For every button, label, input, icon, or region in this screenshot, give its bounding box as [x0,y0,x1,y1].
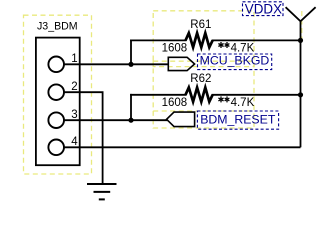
wire pin1 to MCU_BKGD flag [64,63,169,65]
power VDDX stem wire [300,21,302,147]
resistor R62 body [186,88,213,102]
connector pin 3 circle [48,112,64,128]
ground symbol [87,184,117,199]
wire R62 right lead to VDDX stem [212,94,301,96]
svg-text:1: 1 [71,53,77,65]
svg-text:1608: 1608 [162,97,188,109]
svg-text:4.7K: 4.7K [231,97,255,109]
connector pin 1 circle [48,57,64,73]
wire vertical branch pin1 to R61 [130,40,132,65]
node junction dot R62/VDDX stem [298,92,303,97]
svg-text:3: 3 [71,109,77,121]
yellow dashed segment along VDDX stem [301,11,303,40]
svg-text:BDM_RESET: BDM_RESET [200,112,276,126]
wire pin4 to VDDX stem [64,146,301,148]
svg-text:1608: 1608 [162,42,188,54]
svg-text:J3_BDM: J3_BDM [37,21,78,33]
label R61 value **4.7K [218,42,229,48]
wire R61 left lead [130,39,186,41]
off-page connector flag BDM_RESET [167,112,195,127]
connector pin 2 circle [48,84,64,100]
net label MCU_BKGD [198,54,272,70]
node junction dot pin3/R62 branch [128,118,133,123]
svg-text:4.7K: 4.7K [231,42,255,54]
wire R61 right lead to VDDX stem [212,39,301,41]
connector J3 body [36,38,80,166]
node junction dot pin1/R61 branch [128,62,133,67]
connector pin 4 circle [48,140,64,156]
wire R62 left lead [130,94,186,96]
net label VDDX [243,2,284,16]
node junction dot R61/VDDX stem [298,38,303,43]
svg-text:2: 2 [71,81,77,93]
wire vertical branch pin3 to R62 [130,94,132,120]
hierarchical block outline (yellow dashed) around R62 / BDM_RESET [153,61,254,128]
hierarchical block outline (yellow dashed) around connector J3 [24,15,92,174]
resistor R61 body [186,33,213,47]
wire pin2 to ground stem [64,92,103,184]
wire pin3 to BDM_RESET flag [64,119,168,121]
yellow dashed divider above BDM_RESET flag [153,110,254,112]
svg-text:R62: R62 [190,73,211,85]
svg-text:R61: R61 [190,19,211,31]
svg-text:4: 4 [71,136,78,148]
label R62 value **4.7K [218,96,229,102]
svg-text:VDDX: VDDX [245,1,282,16]
net label BDM_RESET [197,111,278,129]
power symbol VDDX arms [286,7,316,21]
hierarchical block outline (yellow dashed) around R61 / MCU_BKGD [153,11,254,67]
off-page connector flag MCU_BKGD [168,57,194,70]
svg-text:MCU_BKGD: MCU_BKGD [200,54,270,68]
